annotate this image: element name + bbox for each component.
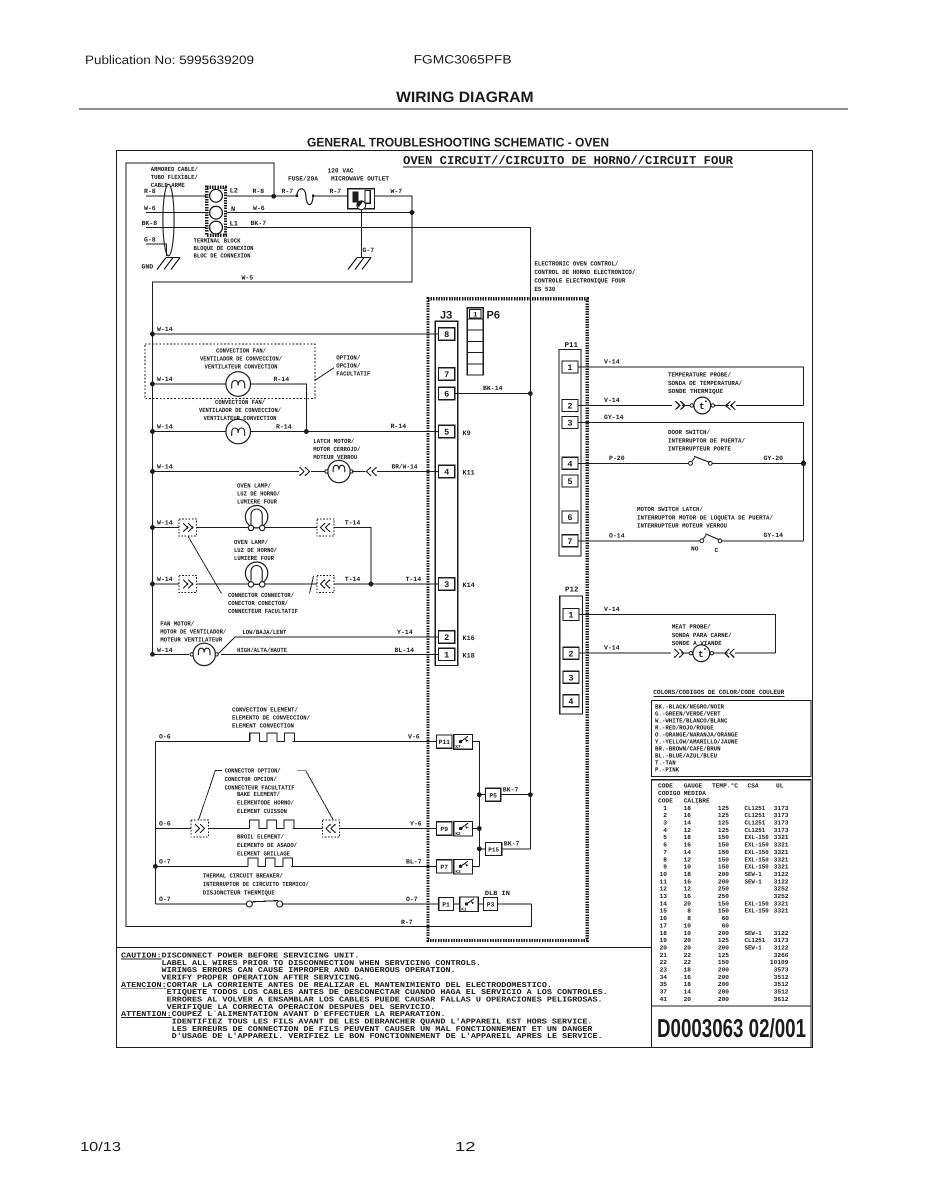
svg-text:21: 21: [660, 952, 668, 959]
svg-text:W-14: W-14: [157, 576, 173, 583]
node: W-6/W-7 junction: [410, 210, 415, 215]
svg-text:Y-6: Y-6: [410, 821, 422, 828]
svg-text:3: 3: [567, 419, 572, 429]
latch motor M3: [328, 460, 350, 482]
svg-text:125: 125: [718, 827, 729, 834]
svg-text:250: 250: [718, 893, 729, 900]
svg-text:3321: 3321: [774, 834, 789, 841]
svg-text:FUSE/20A: FUSE/20A: [288, 176, 318, 183]
wire V-14 from P11 pin 1: [578, 367, 804, 406]
svg-text:18: 18: [684, 871, 692, 878]
svg-text:GENERAL TROUBLESHOOTING SCHEMA: GENERAL TROUBLESHOOTING SCHEMATIC - OVEN: [307, 136, 609, 150]
svg-text:EXL-150: EXL-150: [745, 908, 769, 915]
svg-text:CONVECTION FAN/: CONVECTION FAN/: [216, 348, 266, 355]
wire: W-14 left bus: [152, 334, 154, 654]
svg-text:P.-PINK: P.-PINK: [655, 766, 679, 773]
svg-text:W-14: W-14: [157, 520, 173, 527]
svg-text:Publication No: 5995639209: Publication No: 5995639209: [85, 53, 254, 67]
svg-text:G.-GREEN/VERDE/VERT: G.-GREEN/VERDE/VERT: [655, 710, 721, 717]
svg-text:P3: P3: [487, 902, 495, 909]
inner divider above caution notes: [117, 947, 652, 949]
svg-text:CONECTOR OPCION/: CONECTOR OPCION/: [225, 776, 277, 783]
svg-text:3173: 3173: [774, 937, 789, 944]
node on W-14 bus: [150, 469, 155, 474]
svg-text:W-7: W-7: [391, 188, 403, 195]
svg-text:150: 150: [718, 864, 729, 871]
svg-text:T-14: T-14: [345, 576, 361, 583]
svg-text:150: 150: [718, 959, 729, 966]
convection fan M2: [226, 419, 251, 444]
svg-text:8: 8: [663, 856, 667, 863]
wire GY-20: [712, 462, 803, 464]
connector << (latch): [366, 467, 371, 476]
svg-text:CONNECTEUR FACULTATIF: CONNECTEUR FACULTATIF: [228, 608, 298, 615]
svg-text:4: 4: [568, 697, 573, 707]
connector >> (latch): [300, 467, 305, 476]
svg-text:16: 16: [660, 915, 668, 922]
svg-text:W-14: W-14: [157, 464, 173, 471]
svg-text:MOTOR DE VENTILADOR/: MOTOR DE VENTILADOR/: [160, 629, 226, 636]
thermal circuit breaker CB1: [246, 901, 252, 907]
svg-text:10: 10: [684, 922, 692, 929]
colour code table: [652, 701, 812, 777]
svg-text:5: 5: [567, 477, 572, 487]
svg-text:BAKE ELEMENT/: BAKE ELEMENT/: [237, 791, 280, 798]
svg-text:C: C: [715, 547, 719, 554]
svg-text:3122: 3122: [774, 878, 789, 885]
svg-text:ELEMENT GRILLAGE: ELEMENT GRILLAGE: [237, 851, 290, 858]
wire BK-8 (supply): [146, 227, 206, 229]
svg-text:W.-WHITE/BLANCO/BLANC: W.-WHITE/BLANCO/BLANC: [655, 717, 728, 724]
svg-text:INTERRUPTEUR MOTEUR VERROU: INTERRUPTEUR MOTEUR VERROU: [637, 523, 727, 530]
terminal P11 (output): [437, 735, 452, 748]
svg-text:CONTROLE ELECTRONIQUE FOUR: CONTROLE ELECTRONIQUE FOUR: [534, 278, 625, 285]
svg-text:P11: P11: [438, 739, 450, 746]
svg-text:V-6: V-6: [408, 734, 420, 741]
svg-text:CODIGO: CODIGO: [658, 790, 681, 797]
svg-text:CL1251: CL1251: [745, 937, 766, 944]
svg-text:20: 20: [684, 900, 692, 907]
svg-text:P6: P6: [487, 310, 500, 322]
svg-text:4: 4: [444, 468, 449, 478]
svg-text:9: 9: [663, 864, 667, 871]
svg-text:3: 3: [444, 580, 449, 590]
convection element R1: [245, 741, 250, 743]
svg-text:t: t: [699, 401, 705, 412]
node: R-8/R-7 junction: [271, 194, 276, 199]
wire BK-7 from P15: [502, 848, 531, 850]
svg-text:10/13: 10/13: [80, 1139, 121, 1154]
svg-text:Y-14: Y-14: [397, 629, 413, 636]
svg-text:D'USAGE DE L'APPAREIL. VERIFIE: D'USAGE DE L'APPAREIL. VERIFIEZ LE BON F…: [172, 1032, 603, 1041]
svg-text:CALIBRE: CALIBRE: [684, 797, 710, 804]
wire W-14 to lamp 1: [153, 527, 180, 529]
P11 pin 4: [562, 457, 578, 469]
svg-text:EXL-150: EXL-150: [745, 856, 769, 863]
svg-text:MOTEUR VENTILATEUR: MOTEUR VENTILATEUR: [160, 637, 222, 644]
wire from lamp 2: [265, 583, 317, 585]
electronic oven control ES 530 (hatched enclosure): [428, 299, 587, 941]
svg-text:ELEMENTODE HORNO/: ELEMENTODE HORNO/: [237, 800, 294, 807]
svg-text:3: 3: [663, 820, 667, 827]
svg-text:41: 41: [660, 996, 668, 1003]
wire from latch motor: [352, 471, 366, 473]
svg-text:BR.-BROWN/CAFE/BRUN: BR.-BROWN/CAFE/BRUN: [655, 745, 721, 752]
svg-text:BROIL ELEMENT/: BROIL ELEMENT/: [237, 834, 284, 841]
svg-text:3173: 3173: [774, 812, 789, 819]
svg-text:200: 200: [718, 930, 729, 937]
svg-text:CONNECTOR OPTION/: CONNECTOR OPTION/: [225, 768, 281, 775]
svg-text:ELEMENT CUISSON: ELEMENT CUISSON: [237, 808, 287, 815]
bake element R2: [249, 820, 294, 829]
svg-text:INTERRUPTEUR PORTE: INTERRUPTEUR PORTE: [668, 446, 731, 453]
svg-text:K3: K3: [455, 870, 461, 875]
svg-text:12: 12: [684, 856, 692, 863]
wire O-14 from P11 pin 7: [578, 540, 700, 542]
svg-text:O-7: O-7: [159, 858, 171, 865]
svg-text:3173: 3173: [774, 827, 789, 834]
svg-text:34: 34: [660, 974, 668, 981]
svg-text:18: 18: [684, 834, 692, 841]
svg-text:GY-20: GY-20: [764, 455, 784, 462]
svg-text:3122: 3122: [774, 871, 789, 878]
svg-text:3512: 3512: [774, 989, 789, 996]
wire R-8 to fuse: [227, 195, 298, 197]
P12 pin 2: [563, 647, 579, 659]
relay K7: [454, 735, 473, 750]
svg-text:HIGH/ALTA/HAUTE: HIGH/ALTA/HAUTE: [237, 647, 287, 654]
P11 pin 5: [562, 475, 578, 487]
door switch S1: [689, 461, 693, 465]
svg-text:P11: P11: [565, 342, 579, 350]
svg-text:3321: 3321: [774, 864, 789, 871]
terminal P3: [484, 897, 498, 910]
svg-text:3321: 3321: [774, 842, 789, 849]
connector >> box (bake): [191, 820, 208, 837]
svg-text:CONTROL DE HORNO ELECTRONICO/: CONTROL DE HORNO ELECTRONICO/: [534, 269, 635, 276]
wire K1 to P3: [478, 903, 483, 905]
leader lines to connector caption: [188, 536, 222, 593]
J3 pin 5: [439, 425, 455, 437]
svg-text:G-7: G-7: [363, 247, 375, 254]
svg-text:T-14: T-14: [406, 576, 422, 583]
svg-text:15: 15: [660, 908, 668, 915]
svg-text:12: 12: [455, 1139, 476, 1154]
svg-text:125: 125: [718, 812, 729, 819]
svg-text:CONECTOR CONECTOR/: CONECTOR CONECTOR/: [228, 600, 288, 607]
svg-text:CODE: CODE: [658, 782, 673, 789]
svg-text:BK-14: BK-14: [483, 385, 503, 392]
svg-text:SEW-1: SEW-1: [745, 930, 763, 937]
armored cable sheath (ellipse): [163, 184, 174, 255]
svg-text:W-14: W-14: [157, 326, 173, 333]
svg-text:INTERRUPTOR MOTOR DE LOQUETA D: INTERRUPTOR MOTOR DE LOQUETA DE PUERTA/: [637, 514, 773, 521]
terminal P7: [437, 860, 452, 873]
svg-text:P1: P1: [442, 902, 450, 909]
svg-text:14: 14: [684, 849, 692, 856]
svg-text:MEDIDA: MEDIDA: [684, 790, 707, 797]
node on W-14 bus: [150, 332, 155, 337]
svg-text:BR/W-14: BR/W-14: [392, 464, 418, 471]
svg-text:3173: 3173: [774, 820, 789, 827]
svg-text:8: 8: [687, 915, 691, 922]
svg-text:V-14: V-14: [604, 645, 620, 652]
wire W-14 to lamp 2: [153, 583, 180, 585]
svg-text:COLORS/CODIGOS DE COLOR/CODE C: COLORS/CODIGOS DE COLOR/CODE COULEUR: [653, 689, 784, 696]
svg-text:23: 23: [660, 967, 668, 974]
ground GND (cable): [157, 258, 180, 270]
motor switch latch S2: [700, 539, 704, 543]
oven lamp DS2: [245, 562, 267, 584]
svg-text:K7: K7: [455, 745, 461, 750]
svg-text:3321: 3321: [774, 849, 789, 856]
node on W-14 bus: [150, 582, 155, 587]
svg-text:P9: P9: [440, 826, 448, 833]
svg-text:FAN MOTOR/: FAN MOTOR/: [160, 621, 194, 628]
svg-text:MOTOR CERROJO/: MOTOR CERROJO/: [313, 446, 360, 453]
wire BR/W-14 to J3 pin 4: [377, 471, 439, 473]
svg-text:SONDA DE TEMPERATURA/: SONDA DE TEMPERATURA/: [668, 380, 742, 387]
svg-text:CONVECTION ELEMENT/: CONVECTION ELEMENT/: [232, 707, 298, 714]
svg-text:22: 22: [684, 959, 692, 966]
svg-text:BK-8: BK-8: [142, 220, 158, 227]
svg-text:1: 1: [568, 611, 573, 621]
svg-text:LATCH MOTOR/: LATCH MOTOR/: [313, 438, 354, 445]
svg-text:200: 200: [718, 989, 729, 996]
wire GY-14 (latch): [722, 540, 804, 542]
J3 pin 6: [439, 387, 455, 399]
svg-text:200: 200: [718, 944, 729, 951]
svg-text:22: 22: [684, 952, 692, 959]
svg-text:250: 250: [718, 886, 729, 893]
svg-text:EXL-150: EXL-150: [745, 849, 769, 856]
svg-text:VENTILATEUR CONVECTION: VENTILATEUR CONVECTION: [205, 364, 278, 371]
svg-text:3321: 3321: [774, 900, 789, 907]
meat probe RT2: [674, 649, 679, 658]
svg-text:EXL-150: EXL-150: [745, 864, 769, 871]
svg-text:W-14: W-14: [157, 647, 173, 654]
svg-text:16: 16: [684, 893, 692, 900]
wire BL-7 to P7 relay: [291, 865, 437, 867]
svg-text:G-8: G-8: [144, 237, 156, 244]
J3 pin 4: [439, 465, 455, 477]
wire P-20 from P11 pin 4: [578, 462, 689, 464]
svg-text:INTERRUPTOR DE PUERTA/: INTERRUPTOR DE PUERTA/: [668, 437, 745, 444]
svg-text:2: 2: [663, 812, 667, 819]
underline CAUTION: [121, 958, 162, 960]
svg-text:LUMIERE FOUR: LUMIERE FOUR: [234, 555, 274, 562]
wire O-6 to bake element: [155, 828, 191, 830]
wire T-14 (lamp 1): [334, 528, 371, 585]
J3 pin 2: [439, 631, 455, 643]
wire G-8 (supply ground): [146, 244, 167, 256]
svg-text:6: 6: [444, 390, 449, 400]
underline ATENCION: [121, 987, 167, 989]
svg-text:BK-7: BK-7: [251, 220, 267, 227]
node: lamp outputs join: [369, 582, 374, 587]
svg-text:R-8: R-8: [253, 188, 265, 195]
svg-text:K14: K14: [463, 582, 475, 590]
svg-text:125: 125: [718, 820, 729, 827]
svg-text:3573: 3573: [774, 967, 789, 974]
svg-text:3512: 3512: [774, 981, 789, 988]
wire probe to V-14 loop: [736, 405, 804, 407]
svg-text:7: 7: [663, 849, 667, 856]
wire V-6 to P11 relay: [293, 741, 437, 743]
svg-text:120 VAC: 120 VAC: [328, 167, 354, 174]
svg-text:FACULTATIF: FACULTATIF: [336, 370, 370, 377]
convection fan M1: [226, 372, 251, 397]
wire W-7 from outlet: [375, 196, 412, 213]
connector >> box (lamp 2): [179, 575, 196, 592]
svg-text:14: 14: [684, 820, 692, 827]
P11 pin 2: [562, 400, 578, 412]
svg-text:K1: K1: [461, 907, 467, 912]
svg-text:3173: 3173: [774, 805, 789, 812]
svg-text:LUMIERE FOUR: LUMIERE FOUR: [237, 499, 277, 506]
svg-text:16: 16: [684, 878, 692, 885]
wire BK-7 from P5: [501, 794, 531, 796]
svg-text:7: 7: [444, 370, 449, 380]
wire O-6 to convection element: [155, 741, 245, 743]
header rule: [79, 108, 848, 110]
svg-text:Y.-YELLOW/AMARILLO/JAUNE: Y.-YELLOW/AMARILLO/JAUNE: [655, 738, 738, 745]
svg-text:200: 200: [718, 981, 729, 988]
svg-text:R-8: R-8: [144, 188, 156, 195]
svg-text:14: 14: [660, 900, 668, 907]
svg-text:20: 20: [660, 944, 668, 951]
svg-text:W-5: W-5: [242, 275, 254, 282]
svg-text:LUZ DE HORNO/: LUZ DE HORNO/: [234, 547, 277, 554]
svg-text:VENTILADOR DE CONVECCION/: VENTILADOR DE CONVECCION/: [200, 356, 282, 363]
svg-text:150: 150: [718, 842, 729, 849]
svg-text:V-14: V-14: [604, 606, 620, 613]
svg-text:12: 12: [684, 827, 692, 834]
wire W-14 to J3 pin 8: [153, 333, 439, 335]
svg-text:5: 5: [663, 834, 667, 841]
svg-text:12: 12: [684, 886, 692, 893]
svg-text:OVEN LAMP/: OVEN LAMP/: [234, 539, 268, 546]
J3 pin 8: [439, 328, 455, 340]
wire W-14 to fan motor: [153, 653, 190, 655]
svg-text:O-7: O-7: [406, 896, 418, 903]
svg-text:R-14: R-14: [276, 424, 292, 431]
svg-text:37: 37: [660, 989, 668, 996]
svg-text:K11: K11: [463, 470, 475, 478]
svg-text:18: 18: [684, 805, 692, 812]
P12 pin 1: [563, 609, 579, 621]
wire: R-7/R-8 left return bus: [126, 163, 532, 926]
svg-text:3252: 3252: [774, 893, 789, 900]
wire V-14 from P12 pin 2: [579, 652, 671, 654]
svg-text:P-20: P-20: [609, 455, 625, 462]
svg-text:20: 20: [684, 944, 692, 951]
svg-text:20: 20: [684, 937, 692, 944]
svg-text:TERMINAL BLOCK: TERMINAL BLOCK: [194, 238, 241, 245]
terminal block TB1: [207, 187, 226, 235]
svg-text:6: 6: [663, 842, 667, 849]
J3 pin 1: [439, 648, 455, 660]
svg-text:ARMORED CABLE/: ARMORED CABLE/: [151, 166, 198, 173]
node: GY junction (door switch): [801, 461, 806, 466]
svg-text:14: 14: [684, 989, 692, 996]
svg-text:P5: P5: [489, 792, 497, 799]
wire R-8 (supply): [146, 195, 206, 197]
node: relay bus / K2: [477, 826, 482, 831]
wire R-14 from fan M1: [251, 384, 307, 432]
node: relay bus / P15: [477, 847, 482, 852]
svg-text:GND: GND: [142, 264, 154, 271]
svg-text:R-7: R-7: [282, 188, 294, 195]
oven lamp DS1: [245, 506, 267, 528]
terminal P5: [486, 788, 501, 801]
wire LOW (Y-14) to J3 pin 2: [219, 637, 235, 653]
connector << box (lamp 2): [317, 575, 334, 592]
svg-text:1: 1: [444, 651, 449, 661]
wire probe to V-14 loop: [735, 652, 776, 654]
svg-text:SONDA PARA CARNE/: SONDA PARA CARNE/: [672, 632, 732, 639]
wire BK-7 down to P5/P15: [529, 394, 531, 849]
terminal P15: [486, 842, 502, 855]
svg-text:1: 1: [567, 363, 572, 373]
svg-text:DISJONCTEUR THERMIQUE: DISJONCTEUR THERMIQUE: [203, 890, 275, 897]
wire Y-6 to P9 relay: [340, 828, 437, 830]
wire R-14 to J3 pin 5: [251, 431, 439, 433]
connector << box (bake): [322, 820, 339, 837]
svg-text:MOTEUR VERROU: MOTEUR VERROU: [313, 454, 357, 461]
svg-text:ELECTRONIC OVEN CONTROL/: ELECTRONIC OVEN CONTROL/: [534, 261, 618, 268]
svg-text:125: 125: [718, 805, 729, 812]
svg-text:CSA: CSA: [748, 782, 759, 789]
svg-text:P12: P12: [565, 586, 579, 595]
svg-text:UL: UL: [776, 782, 784, 789]
svg-text:R-14: R-14: [274, 376, 290, 383]
svg-text:J3: J3: [440, 310, 452, 322]
svg-text:WIRING DIAGRAM: WIRING DIAGRAM: [396, 89, 533, 106]
svg-text:22: 22: [660, 959, 668, 966]
node on W-14 bus: [150, 525, 155, 530]
svg-text:BL.-BLUE/AZUL/BLEU: BL.-BLUE/AZUL/BLEU: [655, 752, 717, 759]
wire P1 to K1: [453, 903, 459, 905]
node: BK-7 / P5 junction: [528, 792, 533, 797]
temperature probe RT1: [675, 401, 680, 410]
svg-text:18: 18: [660, 930, 668, 937]
svg-text:ELEMENTO DE CONVECCION/: ELEMENTO DE CONVECCION/: [232, 715, 310, 722]
node on W-14 bus: [150, 382, 155, 387]
svg-text:K2: K2: [455, 832, 461, 837]
document number box D0003063 02/001: [652, 1006, 812, 1048]
svg-text:SEW-1: SEW-1: [745, 878, 763, 885]
svg-text:20: 20: [684, 996, 692, 1003]
svg-text:V-14: V-14: [604, 397, 620, 404]
svg-text:BLOQUE DE CONEXION: BLOQUE DE CONEXION: [194, 245, 254, 252]
svg-text:2: 2: [444, 633, 449, 643]
svg-text:12: 12: [660, 886, 668, 893]
svg-text:MOTOR SWITCH LATCH/: MOTOR SWITCH LATCH/: [637, 506, 703, 513]
svg-text:10109: 10109: [770, 959, 789, 966]
svg-text:O-7: O-7: [159, 896, 171, 903]
svg-text:O-6: O-6: [159, 821, 171, 828]
svg-text:D0003063 02/001: D0003063 02/001: [657, 1013, 806, 1043]
svg-text:13: 13: [660, 893, 668, 900]
svg-text:SONDE THERMIQUE: SONDE THERMIQUE: [668, 388, 723, 395]
underline ATTENTION: [121, 1017, 172, 1019]
svg-text:16: 16: [684, 974, 692, 981]
svg-text:60: 60: [722, 922, 730, 929]
J3 pin 3: [439, 578, 455, 590]
svg-text:8: 8: [444, 330, 449, 340]
svg-text:W-6: W-6: [253, 205, 265, 212]
